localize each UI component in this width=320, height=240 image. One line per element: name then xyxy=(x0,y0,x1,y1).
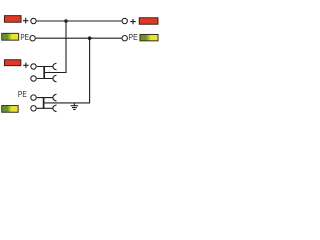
wire row2 (PE) bus horizontal xyxy=(36,37,122,39)
plug contact chevron row6 xyxy=(53,105,57,112)
junction dot row1 xyxy=(64,19,68,23)
wire row1 (+) bus horizontal xyxy=(37,20,122,22)
terminal circle right row2 xyxy=(122,36,127,41)
marking box red, right row1 xyxy=(139,18,158,25)
svg-text:PE: PE xyxy=(20,33,29,42)
terminal circle row4 xyxy=(31,76,36,81)
label + left row3 xyxy=(23,63,28,68)
marking box green-yellow, left row6 xyxy=(2,106,18,113)
plug contact chevron row4 xyxy=(53,75,57,82)
svg-text:PE: PE xyxy=(128,33,138,42)
terminal circle left row2 xyxy=(30,36,35,41)
marking box red, left row3 xyxy=(4,60,20,66)
plug contact chevron row5 xyxy=(53,94,57,101)
plug contact chevron row3 xyxy=(53,63,57,70)
terminal circle row5 xyxy=(31,95,36,100)
wire row4 tap xyxy=(37,78,53,80)
terminal circle row6 xyxy=(31,106,36,111)
wire row5 tap xyxy=(37,97,53,99)
wire vertical bus from row1 junction down to + tap link xyxy=(44,21,66,73)
wire row6 tap xyxy=(37,107,53,109)
label + right row1 xyxy=(130,19,135,25)
marking box red, left row1 xyxy=(4,16,21,23)
svg-text:PE: PE xyxy=(18,89,27,99)
terminal circle right row1 xyxy=(122,18,127,23)
commoning bar PE tap (rows 5-6) xyxy=(43,97,45,109)
terminal circle row3 xyxy=(31,64,36,69)
commoning bar + tap (rows 3-4) xyxy=(43,66,45,79)
marking box green-yellow, left row2 xyxy=(2,33,19,40)
junction dot row2 xyxy=(88,36,92,40)
wire vertical bus from row2 junction down to PE tap link xyxy=(44,38,90,103)
terminal circle left row1 xyxy=(31,18,36,23)
label + left row1 xyxy=(23,18,28,24)
ground (earth) symbol xyxy=(71,103,78,110)
wire row3 tap xyxy=(37,66,53,68)
marking box green-yellow, right row2 xyxy=(140,34,158,40)
